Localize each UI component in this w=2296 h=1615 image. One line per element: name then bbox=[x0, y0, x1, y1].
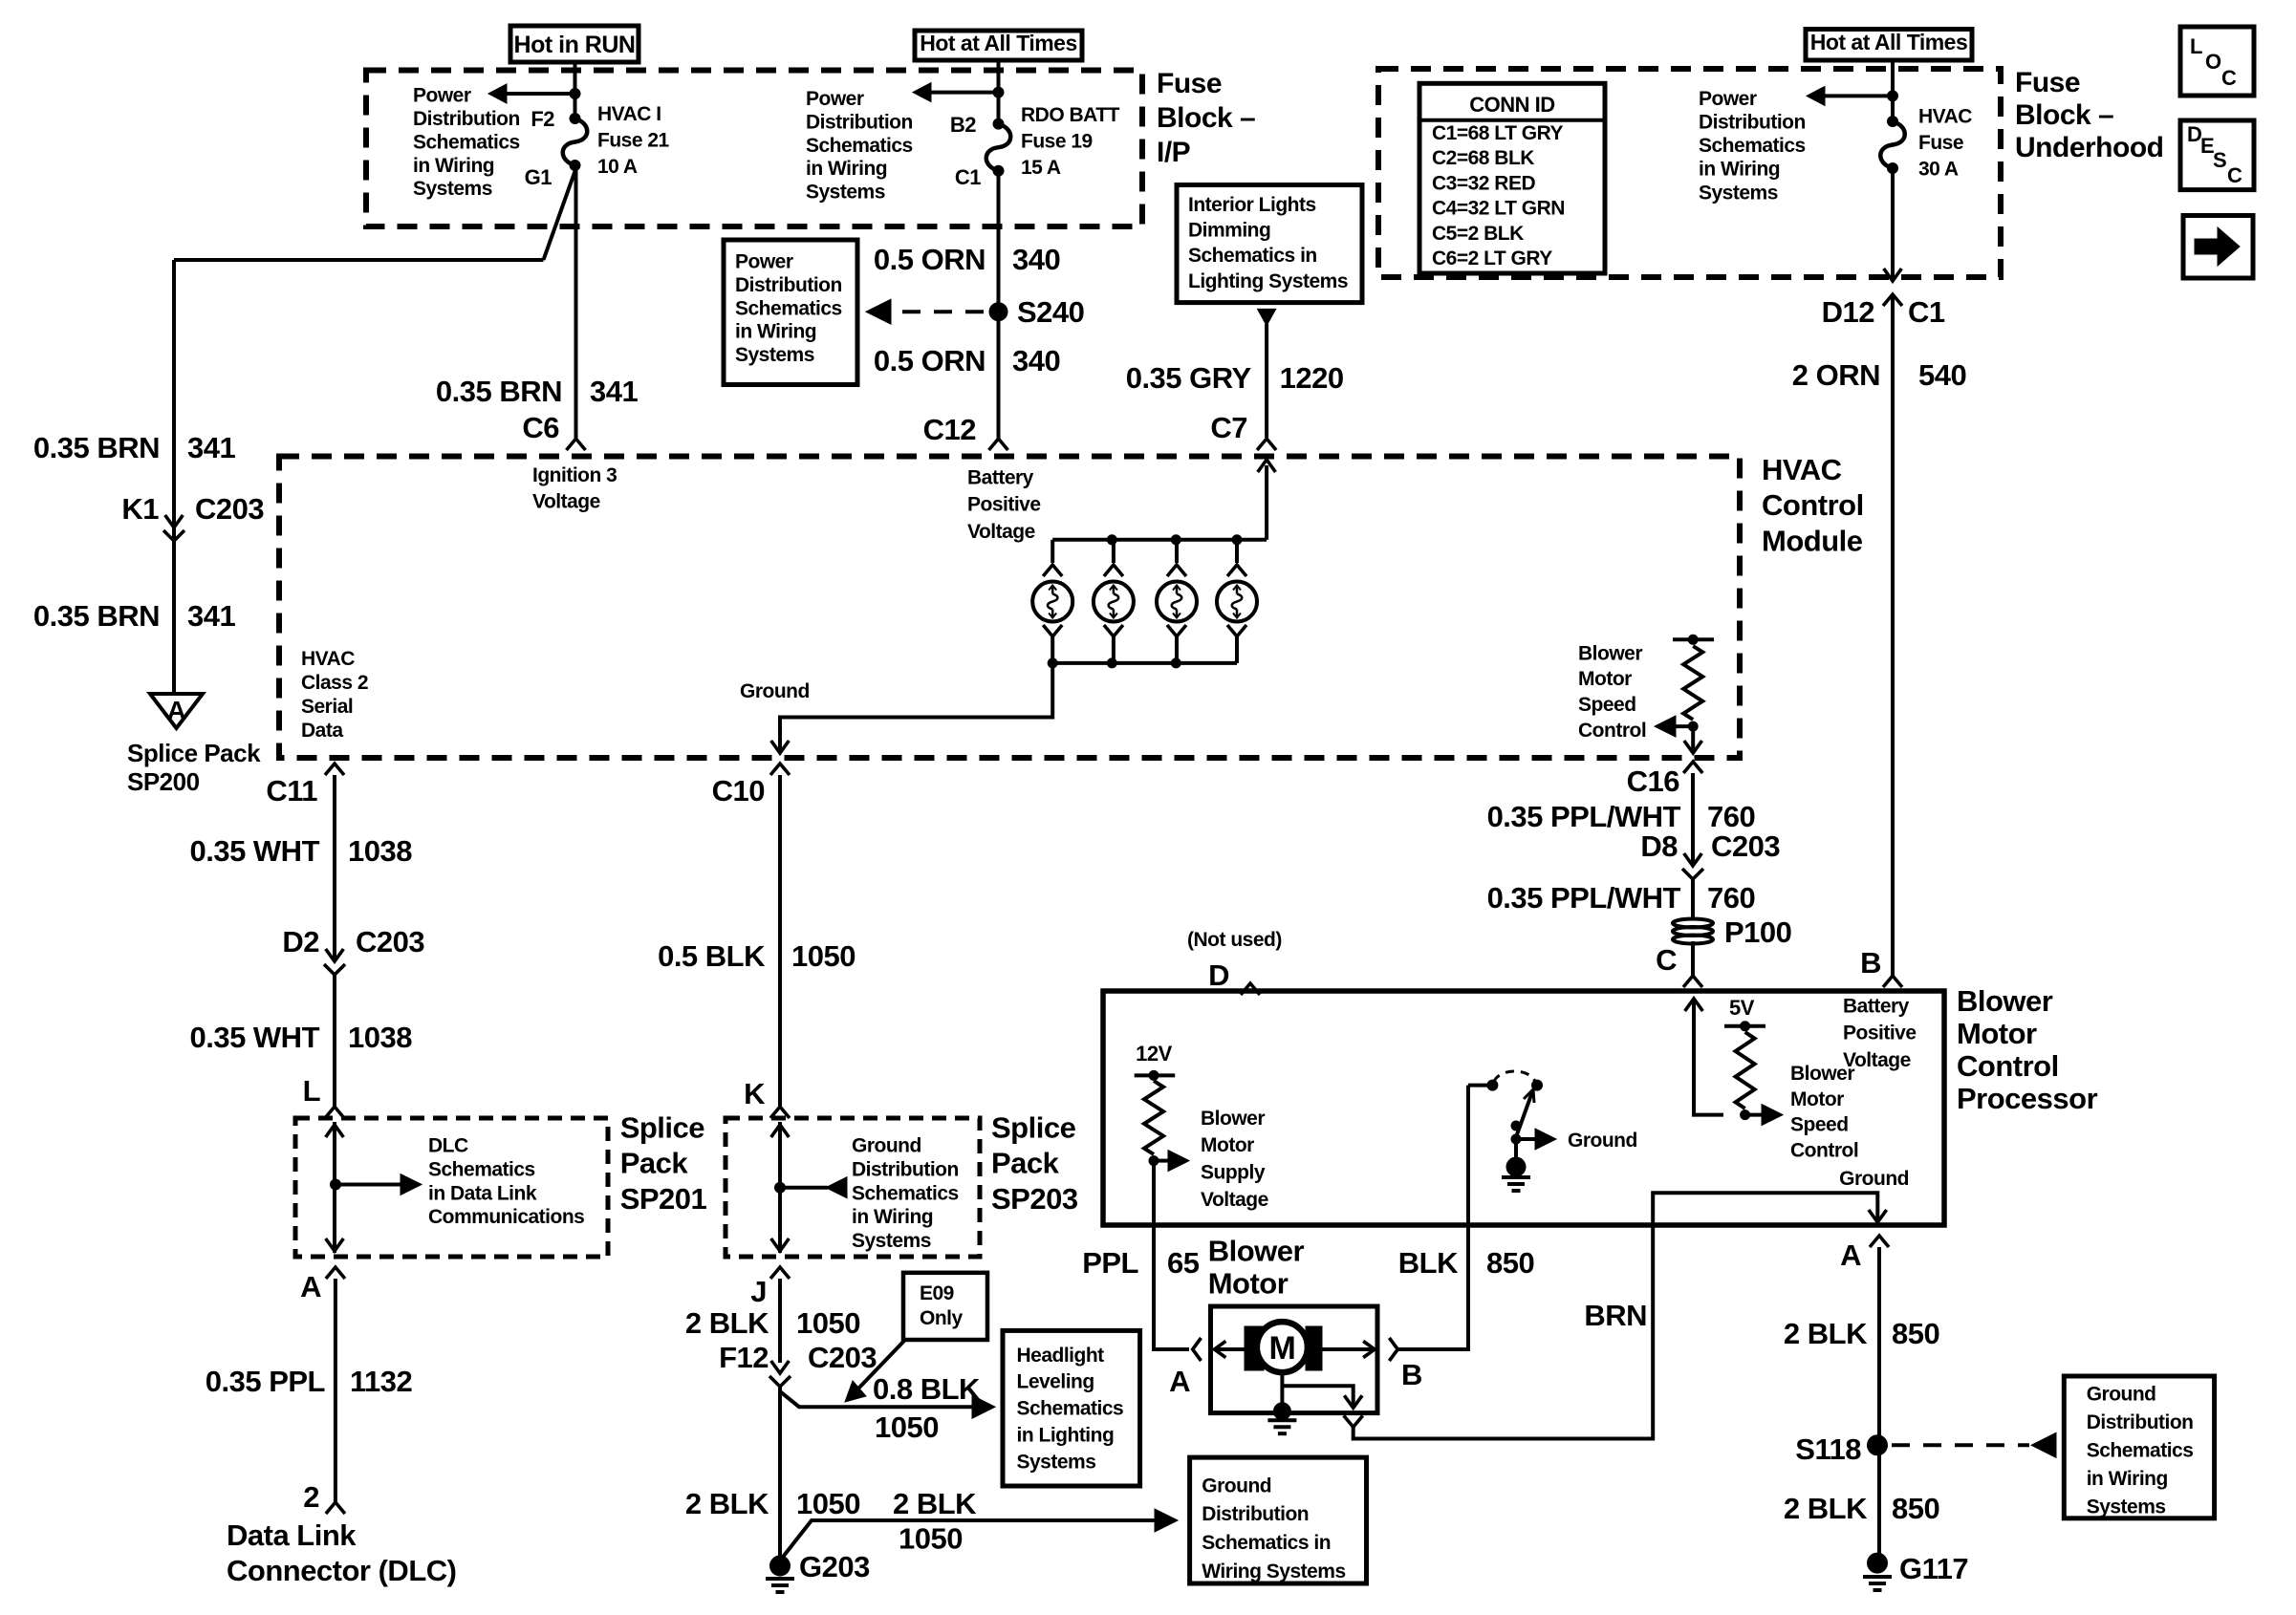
svg-text:340: 340 bbox=[1012, 243, 1060, 276]
fuse Fuse 19 (RDO BATT 15 A) bbox=[993, 118, 1004, 129]
svg-text:in Wiring: in Wiring bbox=[735, 321, 816, 343]
splice S240 bbox=[989, 303, 1007, 321]
svg-text:Interior Lights: Interior Lights bbox=[1188, 194, 1316, 216]
svg-text:5V: 5V bbox=[1729, 996, 1755, 1020]
svg-text:J: J bbox=[750, 1275, 767, 1308]
wire HVAC fuse output down to D12 bbox=[1891, 168, 1895, 279]
label Power Distribution Schematics in Wiring Systems (underhood) bbox=[1699, 88, 1806, 204]
svg-text:Schematics: Schematics bbox=[413, 131, 520, 153]
svg-text:Distribution: Distribution bbox=[852, 1159, 959, 1181]
svg-text:Systems: Systems bbox=[1699, 182, 1778, 204]
svg-text:Supply: Supply bbox=[1201, 1162, 1266, 1184]
dashed wire S118 to ground distribution bbox=[1892, 1443, 2029, 1447]
svg-text:Motor: Motor bbox=[1201, 1134, 1254, 1156]
wire left branch down to splice pack bbox=[172, 260, 176, 694]
svg-text:Wiring Systems: Wiring Systems bbox=[1202, 1561, 1345, 1583]
svg-text:2 BLK: 2 BLK bbox=[685, 1487, 769, 1520]
svg-text:Serial: Serial bbox=[301, 696, 353, 718]
motor M rotor bbox=[1257, 1322, 1308, 1372]
svg-text:SP200: SP200 bbox=[127, 767, 200, 796]
svg-text:C12: C12 bbox=[923, 413, 976, 446]
svg-text:in Wiring: in Wiring bbox=[1699, 159, 1780, 181]
svg-text:C4=32 LT GRN: C4=32 LT GRN bbox=[1432, 198, 1565, 220]
svg-text:C6: C6 bbox=[522, 411, 559, 444]
wire speed control signal inside processor bbox=[1694, 1001, 1723, 1115]
svg-text:C203: C203 bbox=[808, 1341, 877, 1374]
connector pin L chevron bbox=[325, 1107, 344, 1118]
wire motor internal left bbox=[1214, 1347, 1245, 1351]
wire fuse19 output down to C12 bbox=[997, 171, 1001, 439]
svg-text:Blower: Blower bbox=[1790, 1063, 1854, 1085]
connector D12 / C1 (fuse block exit) bbox=[1883, 294, 1902, 306]
svg-text:15 A: 15 A bbox=[1021, 157, 1061, 179]
wire motor sense loop bbox=[1282, 1386, 1353, 1405]
label Blower Motor Speed Control (processor) bbox=[1790, 1063, 1858, 1161]
svg-text:0.8 BLK: 0.8 BLK bbox=[873, 1372, 981, 1406]
motor internal ground dot bbox=[1273, 1403, 1290, 1420]
svg-text:1050: 1050 bbox=[796, 1487, 860, 1520]
svg-text:Schematics: Schematics bbox=[735, 297, 842, 319]
svg-text:Distribution: Distribution bbox=[2087, 1411, 2194, 1433]
svg-text:L: L bbox=[2190, 34, 2202, 58]
svg-text:Underhood: Underhood bbox=[2015, 132, 2163, 163]
wire motor internal right bbox=[1320, 1347, 1375, 1351]
wire processor ground path bbox=[1653, 1193, 1877, 1225]
svg-text:Dimming: Dimming bbox=[1188, 220, 1270, 242]
svg-text:0.5 BLK: 0.5 BLK bbox=[658, 939, 766, 973]
arrow speed control to label bbox=[1672, 724, 1693, 728]
svg-text:D2: D2 bbox=[282, 925, 319, 958]
svg-text:Block –: Block – bbox=[2015, 99, 2113, 131]
splice pack SP200 triangle A bbox=[150, 694, 203, 728]
svg-text:Control: Control bbox=[1762, 488, 1864, 522]
svg-text:340: 340 bbox=[1012, 344, 1060, 377]
svg-text:C6=2 LT GRY: C6=2 LT GRY bbox=[1432, 248, 1552, 269]
svg-text:0.35 WHT: 0.35 WHT bbox=[189, 1021, 319, 1054]
svg-text:C2=68 BLK: C2=68 BLK bbox=[1432, 147, 1534, 169]
svg-text:Control: Control bbox=[1790, 1139, 1858, 1161]
svg-text:2 BLK: 2 BLK bbox=[685, 1306, 769, 1340]
node rail junction 3 bbox=[1171, 535, 1180, 545]
connector C16 at module bottom bbox=[1683, 762, 1702, 773]
node SP201 junction bbox=[331, 1179, 341, 1190]
wire BRN motor to processor ground bbox=[1354, 1225, 1654, 1439]
lamp L3 ground stub bbox=[1167, 625, 1186, 636]
svg-text:Blower: Blower bbox=[1208, 1235, 1305, 1268]
svg-text:K1: K1 bbox=[121, 492, 159, 526]
svg-text:Hot in RUN: Hot in RUN bbox=[514, 32, 636, 58]
svg-text:Motor: Motor bbox=[1578, 668, 1632, 690]
svg-text:K: K bbox=[744, 1077, 766, 1110]
svg-text:Power: Power bbox=[1699, 88, 1757, 110]
connector C11 at module bottom bbox=[325, 764, 344, 775]
svg-text:HVAC I: HVAC I bbox=[597, 103, 661, 125]
label Blower Motor Speed Control (module) bbox=[1578, 642, 1646, 741]
svg-text:Distribution: Distribution bbox=[735, 274, 842, 296]
svg-text:C203: C203 bbox=[356, 925, 424, 958]
svg-text:Speed: Speed bbox=[1578, 694, 1636, 716]
svg-text:2 ORN: 2 ORN bbox=[1792, 358, 1880, 392]
wire 0.35 WHT 1038 (upper) bbox=[333, 775, 336, 961]
svg-text:850: 850 bbox=[1892, 1492, 1939, 1525]
svg-text:F12: F12 bbox=[719, 1341, 769, 1374]
svg-text:Voltage: Voltage bbox=[1201, 1189, 1268, 1211]
svg-text:850: 850 bbox=[1486, 1246, 1534, 1280]
wire lamp ground rail bbox=[1052, 661, 1237, 665]
lamp L1 (illumination) bbox=[1032, 582, 1072, 622]
svg-text:Distribution: Distribution bbox=[1699, 112, 1806, 134]
svg-text:BLK: BLK bbox=[1398, 1246, 1459, 1280]
svg-text:SP201: SP201 bbox=[620, 1182, 707, 1216]
svg-text:Processor: Processor bbox=[1957, 1082, 2098, 1115]
label Hot at All Times box (I/P) bbox=[915, 31, 1082, 60]
arrow from interior lights box down bbox=[1258, 309, 1276, 325]
svg-text:1132: 1132 bbox=[350, 1365, 412, 1398]
wire 2 BLK 1050 (lower) bbox=[778, 1391, 782, 1565]
wire branch 0.8 BLK 1050 to headlight leveling bbox=[780, 1387, 977, 1407]
svg-text:B2: B2 bbox=[950, 113, 976, 137]
svg-text:10 A: 10 A bbox=[597, 156, 638, 178]
svg-text:Pack: Pack bbox=[620, 1147, 689, 1180]
svg-text:Positive: Positive bbox=[967, 494, 1041, 516]
svg-text:0.5 ORN: 0.5 ORN bbox=[874, 344, 986, 377]
label Fuse Block - Underhood bbox=[2015, 67, 2163, 163]
svg-text:Schematics: Schematics bbox=[1017, 1398, 1124, 1420]
svg-text:C: C bbox=[2221, 66, 2237, 90]
svg-text:CONN ID: CONN ID bbox=[1469, 93, 1554, 117]
svg-text:Distribution: Distribution bbox=[806, 111, 913, 133]
svg-text:Splice: Splice bbox=[991, 1110, 1076, 1144]
svg-text:G203: G203 bbox=[799, 1550, 870, 1583]
lamp L4 (illumination) bbox=[1217, 582, 1257, 622]
svg-text:Power: Power bbox=[806, 88, 864, 110]
node junction above HVAC fuse bbox=[1888, 91, 1898, 101]
svg-text:C1: C1 bbox=[1908, 295, 1945, 329]
wire fuse21 output down to C6 bbox=[574, 165, 578, 439]
svg-text:PPL: PPL bbox=[1082, 1246, 1138, 1280]
switch blower control (processor internal) bbox=[1468, 1084, 1487, 1087]
svg-text:B: B bbox=[1401, 1358, 1422, 1391]
svg-text:E09: E09 bbox=[920, 1282, 954, 1304]
box Power Distribution Schematics in Wiring Systems (solid) bbox=[724, 240, 857, 385]
lamp L4 feed stub bbox=[1235, 540, 1239, 563]
wire from Hot at All Times down bbox=[997, 60, 1001, 124]
lamp L1 feed stub bbox=[1051, 540, 1054, 563]
wire 2 ORN 540 down to processor pin B bbox=[1891, 294, 1895, 976]
ground G203 bbox=[770, 1556, 791, 1576]
svg-text:Schematics: Schematics bbox=[806, 135, 913, 157]
wire P100 to pin C bbox=[1691, 941, 1695, 976]
wire 2 BLK 1050 (upper) bbox=[778, 1279, 782, 1363]
label Splice Pack SP203 bbox=[991, 1110, 1078, 1216]
svg-text:Blower: Blower bbox=[1578, 642, 1642, 664]
node speed control junction bbox=[1688, 721, 1698, 731]
pass-through grommet P100 bbox=[1673, 919, 1713, 928]
lamp L1 ground stub bbox=[1043, 625, 1062, 636]
node ground rail junction 3 bbox=[1171, 658, 1180, 668]
svg-text:Schematics: Schematics bbox=[852, 1182, 959, 1204]
node 5V resistor bottom junction bbox=[1741, 1110, 1750, 1120]
svg-text:341: 341 bbox=[590, 375, 638, 408]
label Blower Motor bbox=[1208, 1235, 1305, 1301]
svg-text:Systems: Systems bbox=[1017, 1451, 1096, 1473]
wire splice SP201 internal bbox=[333, 1122, 336, 1253]
svg-text:341: 341 bbox=[187, 599, 235, 633]
lamp L2 (illumination) bbox=[1094, 582, 1134, 622]
svg-text:HVAC: HVAC bbox=[1918, 106, 1972, 128]
box E09 Only bbox=[903, 1273, 987, 1340]
wire horizontal branch to left bbox=[174, 258, 544, 262]
svg-text:Systems: Systems bbox=[806, 182, 885, 204]
svg-text:M: M bbox=[1268, 1330, 1295, 1367]
svg-text:Voltage: Voltage bbox=[967, 521, 1035, 543]
svg-text:Only: Only bbox=[920, 1307, 963, 1329]
svg-text:Fuse 21: Fuse 21 bbox=[597, 130, 670, 152]
motor brush left bbox=[1245, 1326, 1264, 1370]
component blower motor box bbox=[1211, 1306, 1378, 1413]
svg-text:in Lighting: in Lighting bbox=[1017, 1425, 1115, 1447]
svg-text:C5=2 BLK: C5=2 BLK bbox=[1432, 223, 1524, 245]
lamp L2 ground stub bbox=[1104, 625, 1123, 636]
svg-text:1038: 1038 bbox=[348, 834, 412, 868]
svg-text:Schematics: Schematics bbox=[1699, 135, 1806, 157]
svg-text:Module: Module bbox=[1762, 524, 1863, 557]
svg-text:Blower: Blower bbox=[1201, 1108, 1265, 1130]
label HVAC Control Module bbox=[1762, 453, 1864, 557]
arrow to power distribution (middle fuse) bbox=[929, 91, 999, 95]
svg-text:850: 850 bbox=[1892, 1317, 1939, 1350]
arrow to ground label (switch) bbox=[1516, 1137, 1535, 1141]
svg-text:Schematics: Schematics bbox=[428, 1159, 535, 1181]
arrow to supply voltage label bbox=[1154, 1159, 1168, 1163]
svg-text:Systems: Systems bbox=[735, 344, 814, 366]
ground symbol (motor) bbox=[1267, 1418, 1296, 1422]
box Headlight Leveling Schematics in Lighting Systems bbox=[1003, 1330, 1140, 1486]
svg-text:Fuse 19: Fuse 19 bbox=[1021, 131, 1093, 153]
label Blower Motor Supply Voltage bbox=[1201, 1108, 1268, 1211]
svg-text:1050: 1050 bbox=[899, 1522, 963, 1556]
label Hot in RUN box bbox=[510, 26, 639, 62]
legend box DESC bbox=[2180, 120, 2254, 190]
wire interior lights dimming signal bbox=[1265, 324, 1268, 438]
svg-text:C: C bbox=[1656, 943, 1677, 977]
wire BLK 850 motor to processor switch bbox=[1397, 1225, 1468, 1349]
legend box LOC bbox=[2180, 27, 2254, 96]
svg-text:Motor: Motor bbox=[1957, 1017, 2037, 1050]
svg-text:540: 540 bbox=[1918, 358, 1966, 392]
label Splice Pack SP201 bbox=[620, 1110, 707, 1216]
svg-text:in Wiring: in Wiring bbox=[852, 1206, 933, 1228]
svg-text:P100: P100 bbox=[1724, 915, 1791, 949]
svg-text:Fuse: Fuse bbox=[1918, 132, 1963, 154]
svg-text:Fuse: Fuse bbox=[1157, 68, 1222, 99]
node rail junction 2 bbox=[1107, 535, 1116, 545]
svg-text:C3=32 RED: C3=32 RED bbox=[1432, 172, 1535, 194]
dashed arrow from S240 to power distribution box bbox=[902, 310, 986, 313]
svg-text:C10: C10 bbox=[712, 774, 765, 807]
wire 0.35 PPL 1132 bbox=[334, 1279, 337, 1502]
ground node (switch) bbox=[1514, 1139, 1518, 1160]
svg-text:D: D bbox=[1208, 958, 1229, 992]
connector pin C chevron bbox=[1683, 976, 1702, 987]
svg-text:1050: 1050 bbox=[875, 1410, 939, 1444]
wire module internal ground path bbox=[780, 663, 1052, 751]
svg-text:2 BLK: 2 BLK bbox=[893, 1487, 977, 1520]
svg-text:C7: C7 bbox=[1210, 411, 1247, 444]
svg-text:1038: 1038 bbox=[348, 1021, 412, 1054]
svg-text:341: 341 bbox=[187, 431, 235, 464]
node 12V resistor bottom junction bbox=[1149, 1156, 1159, 1166]
svg-text:I/P: I/P bbox=[1157, 137, 1190, 168]
svg-text:1220: 1220 bbox=[1280, 361, 1344, 395]
box Ground Distribution Schematics in Wiring Systems (right) bbox=[2064, 1376, 2214, 1518]
svg-text:in Wiring: in Wiring bbox=[2087, 1468, 2168, 1490]
svg-text:Ignition 3: Ignition 3 bbox=[532, 464, 617, 486]
svg-text:0.35 PPL/WHT: 0.35 PPL/WHT bbox=[1487, 881, 1681, 915]
svg-text:S118: S118 bbox=[1795, 1432, 1861, 1466]
svg-text:Distribution: Distribution bbox=[1202, 1503, 1309, 1525]
svg-text:0.5 ORN: 0.5 ORN bbox=[874, 243, 986, 276]
svg-text:0.35 PPL/WHT: 0.35 PPL/WHT bbox=[1487, 800, 1681, 833]
connector pin K chevron bbox=[770, 1107, 790, 1118]
svg-text:0.35 BRN: 0.35 BRN bbox=[33, 431, 160, 464]
label Ignition 3 Voltage bbox=[532, 464, 617, 513]
svg-text:Ground: Ground bbox=[1568, 1130, 1637, 1152]
label Blower Motor Control Processor bbox=[1957, 984, 2098, 1115]
svg-text:Data: Data bbox=[301, 720, 343, 742]
svg-text:Connector (DLC): Connector (DLC) bbox=[227, 1554, 456, 1587]
svg-text:Voltage: Voltage bbox=[532, 491, 600, 513]
wire lamp supply rail bbox=[1052, 538, 1267, 542]
svg-text:760: 760 bbox=[1707, 881, 1755, 915]
wire from Hot in RUN into fuse block bbox=[574, 62, 577, 118]
label HVAC Fuse 30 A bbox=[1918, 106, 1972, 181]
svg-text:1050: 1050 bbox=[796, 1306, 860, 1340]
svg-text:A: A bbox=[167, 696, 186, 725]
svg-text:F2: F2 bbox=[531, 107, 554, 131]
svg-text:Headlight: Headlight bbox=[1017, 1345, 1105, 1367]
svg-text:Distribution: Distribution bbox=[413, 108, 520, 130]
node SP203 junction bbox=[775, 1182, 786, 1193]
svg-text:D12: D12 bbox=[1822, 295, 1874, 329]
lamp L2 feed stub bbox=[1112, 540, 1116, 563]
svg-text:G117: G117 bbox=[1899, 1552, 1968, 1585]
module HVAC Control Module dashed box bbox=[279, 457, 1740, 759]
svg-text:Ground: Ground bbox=[1202, 1475, 1271, 1497]
svg-text:Splice Pack: Splice Pack bbox=[127, 739, 261, 767]
svg-text:Communications: Communications bbox=[428, 1206, 584, 1228]
svg-text:Control: Control bbox=[1957, 1049, 2059, 1083]
svg-text:in Wiring: in Wiring bbox=[806, 158, 887, 180]
label Battery Positive Voltage (module) bbox=[967, 466, 1041, 543]
lamp L4 ground stub bbox=[1227, 625, 1246, 636]
wire from Hot at All Times (underhood) down bbox=[1891, 60, 1895, 121]
svg-text:Class 2: Class 2 bbox=[301, 672, 368, 694]
svg-text:2 BLK: 2 BLK bbox=[1784, 1317, 1868, 1350]
arrow to power distribution (underhood) bbox=[1824, 94, 1893, 97]
svg-text:HVAC: HVAC bbox=[301, 648, 355, 670]
label Data Link Connector (DLC) bbox=[227, 1518, 456, 1587]
svg-text:0.35 WHT: 0.35 WHT bbox=[189, 834, 319, 868]
wire diagonal branch from G1 bbox=[544, 167, 577, 260]
connector pin B chevron bbox=[1883, 976, 1902, 987]
svg-text:Ground: Ground bbox=[2087, 1384, 2156, 1406]
svg-text:C16: C16 bbox=[1627, 764, 1680, 798]
wire 0.35 PPL/WHT 760 (lower) bbox=[1691, 879, 1695, 919]
label Power Distribution Schematics in Wiring Systems (middle) bbox=[806, 88, 913, 204]
svg-text:O: O bbox=[2205, 50, 2221, 74]
wire branch 2 BLK 1050 to ground distribution bbox=[780, 1520, 1156, 1561]
connector pin 2 chevron bbox=[326, 1502, 345, 1514]
wire splice SP203 internal bbox=[778, 1122, 782, 1253]
svg-text:30 A: 30 A bbox=[1918, 159, 1959, 181]
wire 0.5 BLK 1050 down to splice pack K bbox=[778, 775, 782, 1107]
connector pin A chevron bbox=[1870, 1236, 1889, 1247]
label Ground Distribution Schematics in Wiring Systems (SP203) bbox=[852, 1135, 959, 1252]
svg-text:S240: S240 bbox=[1017, 295, 1084, 329]
svg-text:C203: C203 bbox=[1711, 829, 1780, 863]
fuse block Underhood dashed outline bbox=[1378, 69, 2001, 277]
svg-text:Data Link: Data Link bbox=[227, 1518, 357, 1552]
lamp L3 feed stub bbox=[1175, 540, 1179, 563]
connector blower motor pin B bbox=[1389, 1338, 1397, 1361]
svg-text:A: A bbox=[300, 1270, 321, 1303]
node junction above Fuse 19 bbox=[993, 87, 1004, 97]
label RDO BATT Fuse 19 15 A bbox=[1021, 104, 1120, 179]
connector C10 at module bottom bbox=[770, 764, 790, 775]
svg-text:0.35 BRN: 0.35 BRN bbox=[436, 375, 562, 408]
wire blower motor supply PPL 65 bbox=[1154, 1161, 1189, 1349]
svg-text:Schematics: Schematics bbox=[2087, 1440, 2194, 1462]
label Hot at All Times box (underhood) bbox=[1806, 30, 1972, 61]
svg-text:D8: D8 bbox=[1640, 829, 1678, 863]
label Battery Positive Voltage (processor) bbox=[1843, 995, 1917, 1071]
svg-text:BRN: BRN bbox=[1584, 1299, 1647, 1332]
connector pin J chevron bbox=[770, 1267, 790, 1279]
svg-text:C203: C203 bbox=[195, 492, 264, 526]
label HVAC I Fuse 21 10 A bbox=[597, 103, 670, 178]
box Interior Lights Dimming Schematics in Lighting Systems bbox=[1177, 185, 1362, 303]
svg-text:Control: Control bbox=[1578, 720, 1646, 742]
connector motor bottom chevron bbox=[1344, 1415, 1363, 1427]
svg-text:S: S bbox=[2213, 148, 2226, 172]
svg-text:Ground: Ground bbox=[740, 680, 810, 702]
fuse HVAC Fuse 30 A bbox=[1888, 117, 1898, 127]
svg-text:Ground: Ground bbox=[852, 1135, 921, 1157]
wire speed control down to C16 bbox=[1691, 726, 1695, 751]
splice S118 bbox=[1868, 1435, 1888, 1455]
motor brush right bbox=[1306, 1326, 1322, 1370]
svg-text:Motor: Motor bbox=[1790, 1088, 1844, 1110]
svg-text:DLC: DLC bbox=[428, 1135, 468, 1157]
wire 0.35 PPL/WHT 760 (upper) bbox=[1691, 773, 1695, 866]
arrow battery feed inside module at C7 bbox=[1265, 465, 1268, 540]
svg-text:Schematics in: Schematics in bbox=[1188, 245, 1317, 267]
table CONN ID bbox=[1419, 83, 1605, 273]
svg-text:SP203: SP203 bbox=[991, 1182, 1078, 1216]
svg-text:Pack: Pack bbox=[991, 1147, 1060, 1180]
svg-text:Block –: Block – bbox=[1157, 102, 1255, 134]
svg-text:C11: C11 bbox=[266, 774, 317, 807]
svg-text:C1=68 LT GRY: C1=68 LT GRY bbox=[1432, 122, 1563, 144]
svg-text:Systems: Systems bbox=[413, 178, 492, 200]
splice pack SP201 dashed box bbox=[295, 1118, 608, 1257]
svg-text:Battery: Battery bbox=[1843, 995, 1910, 1017]
wire 0.35 WHT 1038 (lower) bbox=[333, 975, 336, 1107]
svg-text:Battery: Battery bbox=[967, 466, 1034, 488]
node ground rail junction 1 bbox=[1048, 658, 1057, 668]
svg-text:Leveling: Leveling bbox=[1017, 1371, 1094, 1393]
